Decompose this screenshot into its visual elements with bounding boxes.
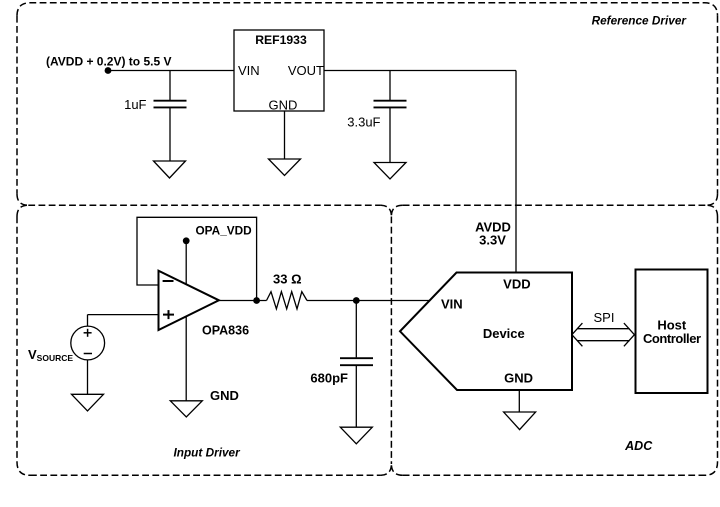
svg-text:3.3V: 3.3V [479, 232, 506, 247]
svg-text:33 Ω: 33 Ω [273, 272, 302, 287]
svg-text:1uF: 1uF [124, 97, 146, 112]
svg-text:VIN: VIN [238, 63, 260, 78]
svg-text:Reference Driver: Reference Driver [592, 14, 688, 28]
svg-text:Input Driver: Input Driver [173, 446, 241, 460]
svg-text:3.3uF: 3.3uF [347, 115, 380, 130]
svg-text:REF1933: REF1933 [255, 33, 307, 47]
svg-text:Controller: Controller [643, 331, 701, 346]
svg-text:OPA836: OPA836 [202, 324, 249, 338]
svg-text:ADC: ADC [624, 439, 653, 453]
svg-text:GND: GND [504, 370, 533, 385]
svg-text:SPI: SPI [594, 310, 615, 325]
svg-text:680pF: 680pF [310, 371, 348, 386]
svg-text:VOUT: VOUT [288, 63, 324, 78]
svg-text:VIN: VIN [441, 296, 463, 311]
svg-text:(AVDD + 0.2V) to 5.5 V: (AVDD + 0.2V) to 5.5 V [46, 55, 171, 69]
svg-text:GND: GND [269, 97, 298, 112]
svg-text:GND: GND [210, 388, 239, 403]
svg-text:OPA_VDD: OPA_VDD [196, 224, 253, 238]
svg-text:VDD: VDD [503, 276, 530, 291]
svg-text:Device: Device [483, 326, 525, 341]
